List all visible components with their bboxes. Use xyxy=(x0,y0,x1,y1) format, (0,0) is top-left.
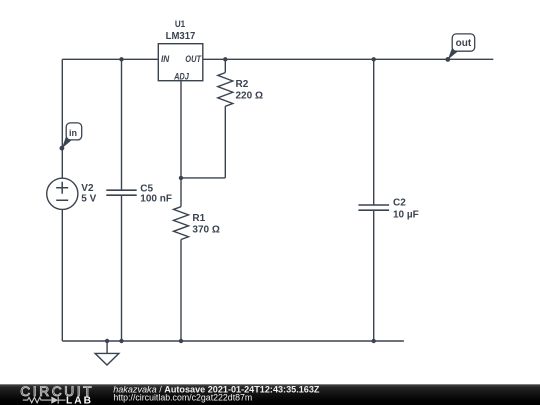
svg-text:220 Ω: 220 Ω xyxy=(236,90,263,101)
svg-text:10 µF: 10 µF xyxy=(393,209,419,220)
svg-text:5 V: 5 V xyxy=(81,193,96,204)
svg-text:100 nF: 100 nF xyxy=(140,194,172,205)
svg-text:R1: R1 xyxy=(192,213,205,224)
svg-text:OUT: OUT xyxy=(185,54,202,64)
svg-text:http://circuitlab.com/c2gat222: http://circuitlab.com/c2gat222dt87m xyxy=(113,393,252,403)
svg-text:out: out xyxy=(456,38,472,49)
svg-text:LAB: LAB xyxy=(66,395,93,405)
svg-text:370 Ω: 370 Ω xyxy=(192,224,219,235)
svg-text:R2: R2 xyxy=(236,79,249,90)
svg-text:ADJ: ADJ xyxy=(173,71,189,81)
svg-text:V2: V2 xyxy=(81,183,94,194)
svg-text:U1: U1 xyxy=(175,19,186,30)
svg-text:IN: IN xyxy=(161,54,170,64)
svg-text:in: in xyxy=(69,128,77,138)
svg-text:C2: C2 xyxy=(393,198,406,209)
svg-text:LM317: LM317 xyxy=(166,31,196,42)
